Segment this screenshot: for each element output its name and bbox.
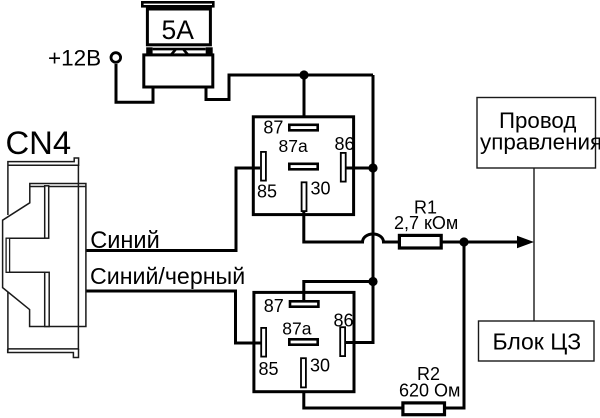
relay K2 pin 30 bbox=[301, 358, 306, 387]
relay K1 pin 30 bbox=[302, 182, 307, 211]
svg-text:86: 86 bbox=[335, 134, 355, 154]
node junction on right bus bbox=[368, 277, 377, 286]
fuse F1 body bbox=[147, 9, 210, 45]
fuse contact bar bbox=[153, 48, 206, 51]
svg-text:85: 85 bbox=[257, 182, 277, 202]
connector CN4 insert body bbox=[3, 184, 86, 327]
control wire box (Провод управления) bbox=[477, 98, 596, 169]
relay K2 pin 87a bbox=[289, 339, 317, 344]
relay K1 pin 85 bbox=[261, 152, 266, 181]
wire dot to relay2 pin 87 bbox=[304, 282, 373, 301]
svg-text:87а: 87а bbox=[282, 318, 311, 338]
+12V terminal circle bbox=[111, 53, 121, 63]
node junction R1 output bbox=[459, 237, 468, 246]
wire control box to central lock box bbox=[533, 168, 535, 321]
wire relay2 pin85 to CN4 (blue/black) bbox=[86, 291, 261, 343]
wire +12V to fuse holder left leg bbox=[116, 64, 153, 102]
svg-text:87а: 87а bbox=[279, 136, 308, 156]
fuse holder box bbox=[144, 55, 213, 87]
fuse F1 cap bbox=[142, 2, 213, 6]
node junction top bus bbox=[299, 70, 308, 79]
wire relay2 pin86 to bus bbox=[346, 341, 375, 344]
relay K2 pin 87 bbox=[290, 301, 318, 306]
fuse left blade leg bbox=[146, 47, 152, 55]
relay K1 box bbox=[253, 117, 353, 215]
wire R2 to relay2 pin30 bbox=[304, 389, 403, 408]
resistor R2 bbox=[403, 403, 445, 415]
svg-text:CN4: CN4 bbox=[6, 124, 72, 161]
resistor R1 bbox=[399, 235, 441, 248]
relay K1 pin 87 bbox=[289, 125, 317, 131]
svg-text:5A: 5A bbox=[162, 15, 195, 45]
connector CN4 housing bbox=[8, 158, 79, 358]
wire R1 to junction bbox=[442, 241, 464, 244]
svg-text:87: 87 bbox=[264, 296, 284, 316]
arrowhead bbox=[517, 236, 534, 249]
svg-text:управления: управления bbox=[480, 129, 600, 154]
wire relay1 pin86 to right bus bbox=[347, 167, 374, 170]
wire arrow to control wire bbox=[464, 241, 520, 244]
svg-text:30: 30 bbox=[311, 179, 331, 199]
relay K1 pin 86 bbox=[341, 153, 346, 182]
fuse right blade leg bbox=[206, 47, 213, 55]
svg-text:Блок ЦЗ: Блок ЦЗ bbox=[493, 329, 582, 355]
relay K2 pin 85 bbox=[261, 328, 266, 357]
fuse contact right diagonal bbox=[184, 50, 189, 56]
wire fuse holder right leg to top bus bbox=[206, 75, 373, 100]
wire junction down to R2 bbox=[445, 242, 464, 408]
connector CN4 slot 2 bbox=[45, 272, 50, 326]
relay K2 box bbox=[254, 292, 354, 391]
svg-text:30: 30 bbox=[310, 356, 330, 376]
central lock box (Блок ЦЗ) bbox=[479, 321, 595, 361]
svg-text:+12В: +12В bbox=[48, 46, 101, 71]
connector CN4 slot 1 bbox=[45, 186, 49, 238]
wire right vertical bus bbox=[372, 75, 375, 343]
relay K2 pin 86 bbox=[340, 327, 345, 356]
svg-text:620 Ом: 620 Ом bbox=[399, 381, 460, 401]
svg-text:85: 85 bbox=[259, 359, 279, 379]
fuse contact left diagonal bbox=[171, 50, 176, 56]
relay K1 pin 87a bbox=[289, 164, 317, 170]
connector CN4 latch bbox=[6, 238, 10, 272]
svg-text:2,7 кОм: 2,7 кОм bbox=[394, 213, 458, 233]
wire relay1 pin85 to CN4 (blue) bbox=[86, 168, 260, 251]
svg-text:87: 87 bbox=[263, 118, 283, 138]
node junction relay1-86 on bus bbox=[368, 163, 377, 172]
wire relay1 pin30 to R1 with hop over bus bbox=[304, 212, 398, 242]
wire bus drop to relay1 pin 87 bbox=[303, 75, 306, 125]
svg-text:Синий/черный: Синий/черный bbox=[90, 263, 245, 289]
svg-text:Синий: Синий bbox=[90, 228, 160, 254]
